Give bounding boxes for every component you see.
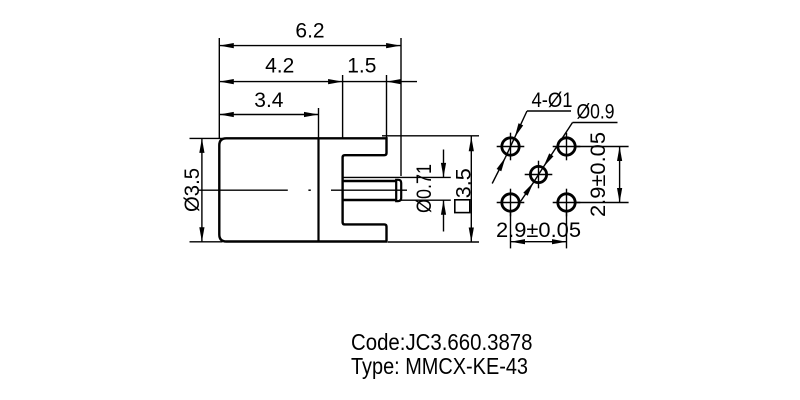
svg-text:6.2: 6.2 <box>295 20 324 43</box>
svg-text:Ø0.71: Ø0.71 <box>413 164 436 213</box>
svg-text:Code:JC3.660.3878: Code:JC3.660.3878 <box>351 329 533 355</box>
pin bottom extension line <box>399 199 451 201</box>
footprint dim 2.9 right line <box>619 147 621 203</box>
extension line pin tip <box>400 38 402 176</box>
dimension sq3.5 line <box>470 136 472 242</box>
svg-text:3.5: 3.5 <box>453 168 476 198</box>
extension line tab right edge <box>386 75 388 138</box>
dimension dia3.5 extension lines <box>190 137 223 139</box>
dimension 1.5 line <box>343 81 387 83</box>
svg-text:Ø3.5: Ø3.5 <box>181 168 204 212</box>
dimension 3.4 line <box>219 114 318 116</box>
svg-text:4.2: 4.2 <box>265 55 294 78</box>
extension line body left <box>218 38 220 139</box>
leader dia0.9 <box>573 122 618 124</box>
svg-text:Type: MMCX-KE-43: Type: MMCX-KE-43 <box>351 353 528 379</box>
connector body outline <box>219 138 386 241</box>
extension line internal edge <box>318 108 320 138</box>
leader 4-dia1 <box>527 110 571 112</box>
body internal edge at 3.4 <box>317 138 319 241</box>
center pin top edge <box>343 180 397 182</box>
footprint dim 2.9 right extension lines <box>575 146 629 148</box>
svg-text:2.9±0.05: 2.9±0.05 <box>587 132 610 217</box>
center pin bottom edge <box>343 199 397 201</box>
footprint hole bottom-left <box>502 194 519 211</box>
svg-text:Ø0.9: Ø0.9 <box>577 100 615 123</box>
pin end cap <box>396 180 401 201</box>
square symbol <box>455 200 470 213</box>
footprint dim 2.9 bottom line <box>511 241 567 243</box>
dimension sq3.5 extension lines <box>382 135 479 137</box>
footprint hole bottom-right <box>558 194 575 211</box>
footprint dim 2.9 bottom extension lines <box>510 211 512 248</box>
footprint hole top-left <box>502 138 519 155</box>
svg-text:1.5: 1.5 <box>347 55 376 78</box>
svg-text:2.9±0.05: 2.9±0.05 <box>496 219 581 242</box>
dimension dia3.5 line <box>201 138 203 241</box>
svg-text:3.4: 3.4 <box>254 89 284 112</box>
svg-text:4-Ø1: 4-Ø1 <box>532 89 573 112</box>
extension line body right edge <box>342 75 344 138</box>
dimension 4.2 line <box>219 81 342 83</box>
dimension 6.2 line <box>219 45 400 47</box>
centerline <box>198 189 288 191</box>
footprint hole top-right <box>558 138 575 155</box>
dimension dia0.71 lines <box>443 150 445 178</box>
pin slot top line <box>343 176 451 178</box>
footprint hole center <box>530 166 546 182</box>
